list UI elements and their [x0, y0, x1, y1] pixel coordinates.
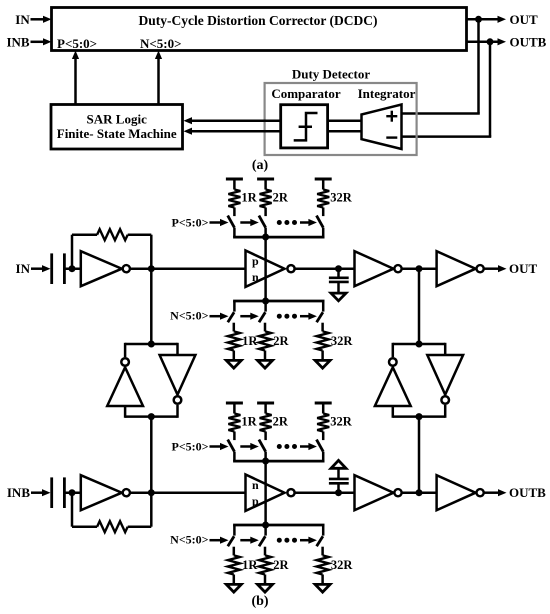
- ellipsis dots: [277, 538, 282, 543]
- svg-text:INB: INB: [7, 485, 30, 500]
- wire INB input arrow: [31, 41, 46, 44]
- power VDD rail bar (col 1R): [226, 178, 243, 181]
- power VDD rail bar (col 32R): [315, 178, 332, 181]
- power VDD rail bar (col 2R): [257, 178, 274, 181]
- node load cap junction: [335, 265, 342, 272]
- hysteresis symbol inside comparator: [294, 113, 318, 140]
- resistor 2R: [260, 190, 272, 208]
- svg-text:32R: 32R: [330, 191, 353, 205]
- switch (col 32R): [322, 432, 325, 441]
- svg-text:IN: IN: [16, 261, 31, 276]
- resistor 32R: [317, 190, 329, 208]
- inverter output stage 2: [437, 475, 476, 510]
- node N-bank bus junction: [262, 298, 269, 305]
- capacitor AC-coupling input (IN): [50, 253, 53, 284]
- svg-text:1R: 1R: [241, 415, 257, 429]
- inverter output stage 2: [437, 251, 476, 286]
- svg-text:OUTB: OUTB: [509, 485, 546, 500]
- switch (col 1R): [233, 432, 236, 441]
- wire IN arrow: [31, 267, 44, 270]
- switch (col 1R): [233, 525, 236, 536]
- node feedback/cross-couple junction: [148, 489, 155, 496]
- ellipsis dots: [277, 314, 282, 319]
- wire left keeper stub top: [392, 343, 395, 357]
- wire OUTB arrow: [484, 491, 499, 494]
- wires integrator to comparator (differential): [328, 119, 362, 122]
- node inverter input junction: [69, 265, 76, 272]
- wire right keeper stub top: [176, 343, 179, 355]
- node OUT junction: [475, 16, 482, 23]
- wire OUT arrow: [484, 267, 499, 270]
- power VDD rail bar (col 32R): [315, 402, 332, 405]
- wire rail IN-side from row1 to keeper: [150, 269, 153, 344]
- tri-state buffer n/p: [246, 475, 285, 511]
- wire buffer supply rail vertical: [264, 237, 267, 301]
- control arrow 2: [240, 539, 252, 542]
- node feedback/cross-couple junction: [148, 265, 155, 272]
- node load cap junction: [335, 489, 342, 496]
- wire N-bank bus bar: [233, 524, 324, 527]
- node keeper bottom junction: [148, 413, 155, 420]
- wire bus bar of switch bank: [233, 460, 324, 463]
- switch (col 32R): [322, 208, 325, 217]
- wire keeper bottom bar: [393, 415, 445, 418]
- switch (col 1R): [233, 208, 236, 217]
- control arrow 1: [210, 315, 223, 318]
- svg-text:2R: 2R: [273, 334, 289, 348]
- resistor 2R: [260, 414, 272, 432]
- wire between output inverters: [402, 491, 437, 494]
- svg-text:(b): (b): [251, 594, 268, 609]
- ground: [258, 360, 273, 368]
- resistor 32R: [317, 414, 329, 432]
- wire feedback left vertical: [71, 235, 74, 269]
- wire feedback left vertical: [71, 493, 74, 527]
- integrator + sign: [386, 115, 397, 117]
- inverter output stage 1: [355, 475, 394, 510]
- svg-text:2R: 2R: [273, 191, 289, 205]
- box Duty Detector (gray): [265, 83, 417, 155]
- svg-text:INB: INB: [6, 35, 29, 50]
- node cross-couple junction right: [416, 489, 423, 496]
- comparator U_cmp box: [281, 105, 328, 148]
- wire inverter out to tri-state buffer: [130, 267, 245, 270]
- power VDD rail bar (col 1R): [226, 402, 243, 405]
- ellipsis dots: [277, 444, 282, 449]
- inverter input stage (IN): [81, 251, 122, 286]
- svg-text:OUT: OUT: [510, 12, 539, 27]
- svg-text:SAR Logic: SAR Logic: [87, 112, 148, 127]
- control arrow 2: [240, 315, 252, 318]
- switch (col 32R): [322, 525, 325, 536]
- ground: [331, 293, 346, 301]
- resistor 32R: [317, 331, 329, 350]
- node keeper top junction: [416, 341, 423, 348]
- control arrow 1: [210, 539, 223, 542]
- wire OUT to integrator + input: [477, 19, 480, 113]
- resistor 1R: [228, 190, 240, 208]
- resistor 32R: [317, 555, 329, 574]
- capacitor load to ground: [337, 269, 340, 278]
- svg-text:N<5:0>: N<5:0>: [170, 533, 209, 547]
- integrator U_int (trapezoid amp): [362, 105, 402, 150]
- wire keeper bottom bar: [125, 415, 177, 418]
- wire OUTB from DCDC: [467, 41, 500, 44]
- resistor 1R: [228, 414, 240, 432]
- wire SAR to DCDC P<5:0> (up arrow): [74, 58, 77, 105]
- wire SAR to DCDC N<5:0> (up arrow): [157, 58, 160, 105]
- switch (col 2R): [264, 301, 267, 312]
- svg-text:P<5:0>: P<5:0>: [171, 439, 208, 453]
- ground: [315, 360, 330, 368]
- node inverter input junction: [69, 489, 76, 496]
- svg-text:Duty Detector: Duty Detector: [292, 67, 371, 82]
- svg-text:n: n: [252, 478, 259, 492]
- capacitor load to supply: [337, 483, 340, 492]
- svg-text:2R: 2R: [273, 415, 289, 429]
- resistor 1R: [228, 331, 240, 350]
- svg-text:N<5:0>: N<5:0>: [170, 309, 209, 323]
- power VDD rail bar (col 2R): [257, 402, 274, 405]
- svg-text:1R: 1R: [241, 191, 257, 205]
- wire rail OUT-side from row1 to keeper: [418, 269, 421, 344]
- inverter keeper (pointing up): [389, 358, 397, 366]
- node N-bank bus junction: [262, 522, 269, 529]
- ground: [258, 584, 273, 592]
- svg-text:Integrator: Integrator: [358, 86, 416, 101]
- wire OUTB to integrator - input: [489, 42, 492, 137]
- inverter input stage (INB): [81, 475, 122, 510]
- inverter keeper (pointing down): [160, 355, 196, 395]
- tri-state buffer p/n: [246, 251, 285, 287]
- node P-bank bus junction: [262, 458, 269, 465]
- wire left keeper stub bottom: [392, 406, 395, 418]
- wire bus bar of switch bank: [233, 236, 324, 239]
- node cross-couple junction right: [416, 265, 423, 272]
- wire INB arrow: [31, 491, 44, 494]
- svg-text:p: p: [252, 494, 259, 508]
- wire feedback right vertical: [150, 235, 153, 269]
- ellipsis dots: [277, 220, 282, 225]
- block SAR Logic FSM: [51, 105, 183, 150]
- control arrow 2: [240, 221, 252, 224]
- node P-bank bus junction: [262, 234, 269, 241]
- wire buffer output: [295, 267, 354, 270]
- node OUTB junction: [487, 38, 494, 45]
- wire feedback right vertical: [150, 493, 153, 527]
- node keeper top junction: [148, 341, 155, 348]
- ground: [226, 584, 241, 592]
- svg-text:2R: 2R: [273, 558, 289, 572]
- switch (col 2R): [264, 432, 267, 441]
- inverter keeper (pointing up): [121, 358, 129, 366]
- switch (col 2R): [264, 208, 267, 217]
- wire left keeper stub top: [124, 343, 127, 357]
- svg-text:Duty-Cycle Distortion Correcto: Duty-Cycle Distortion Corrector (DCDC): [138, 13, 377, 28]
- svg-text:32R: 32R: [331, 558, 354, 572]
- control arrow 1: [210, 445, 223, 448]
- resistor 1R: [228, 555, 240, 574]
- svg-text:p: p: [252, 254, 259, 268]
- switch (col 1R): [233, 301, 236, 312]
- wire OUT from DCDC: [467, 18, 500, 21]
- wire keeper top bar: [393, 343, 445, 346]
- control arrow 3: [300, 315, 310, 318]
- wire rail IN-side keeper to row2: [150, 417, 153, 493]
- svg-text:Finite- State Machine: Finite- State Machine: [57, 126, 177, 141]
- control arrow 1: [210, 221, 223, 224]
- wire buffer supply rail vertical: [264, 461, 267, 525]
- switch (col 2R): [264, 525, 267, 536]
- inverter keeper (pointing down): [427, 355, 463, 395]
- svg-text:32R: 32R: [330, 415, 353, 429]
- wire right keeper stub bottom: [176, 405, 179, 418]
- integrator - sign: [386, 136, 397, 138]
- resistor feedback: [72, 233, 97, 236]
- wire between output inverters: [402, 267, 437, 270]
- control arrow 3: [300, 539, 310, 542]
- switch (col 32R): [322, 301, 325, 312]
- wire inverter out to tri-state buffer: [130, 491, 245, 494]
- resistor feedback: [72, 525, 97, 528]
- ground: [226, 360, 241, 368]
- svg-text:(a): (a): [252, 158, 269, 173]
- wire left keeper stub bottom: [124, 406, 127, 418]
- wire N-bank bus bar: [233, 300, 324, 303]
- svg-text:N<5:0>: N<5:0>: [140, 36, 182, 51]
- inverter output stage 1: [355, 251, 394, 286]
- svg-text:P<5:0>: P<5:0>: [57, 36, 97, 51]
- svg-text:OUT: OUT: [509, 261, 538, 276]
- power VDD arrow symbol: [331, 460, 346, 468]
- control arrow 3: [300, 221, 310, 224]
- wires comparator to SAR logic (2 arrows): [192, 119, 281, 122]
- block DCDC Duty-Cycle Distortion Corrector: [52, 8, 467, 51]
- control arrow 2: [240, 445, 252, 448]
- ground: [315, 584, 330, 592]
- svg-text:OUTB: OUTB: [510, 34, 547, 49]
- svg-text:P<5:0>: P<5:0>: [171, 215, 208, 229]
- wire IN input arrow: [31, 18, 46, 21]
- wire cap to inverter input: [64, 491, 80, 494]
- wire buffer output: [295, 491, 354, 494]
- svg-text:n: n: [252, 270, 259, 284]
- svg-text:32R: 32R: [331, 334, 354, 348]
- resistor 2R: [259, 331, 271, 350]
- node keeper bottom junction: [416, 413, 423, 420]
- capacitor AC-coupling input (INB): [50, 477, 53, 508]
- svg-text:Comparator: Comparator: [271, 86, 341, 101]
- wire rail OUT-side keeper to row2: [418, 417, 421, 493]
- control arrow 3: [300, 445, 310, 448]
- resistor 2R: [259, 555, 271, 574]
- wire keeper top bar: [125, 343, 177, 346]
- svg-text:IN: IN: [15, 12, 30, 27]
- wire cap to inverter input: [64, 267, 80, 270]
- wire right keeper stub top: [444, 343, 447, 355]
- wire right keeper stub bottom: [444, 405, 447, 418]
